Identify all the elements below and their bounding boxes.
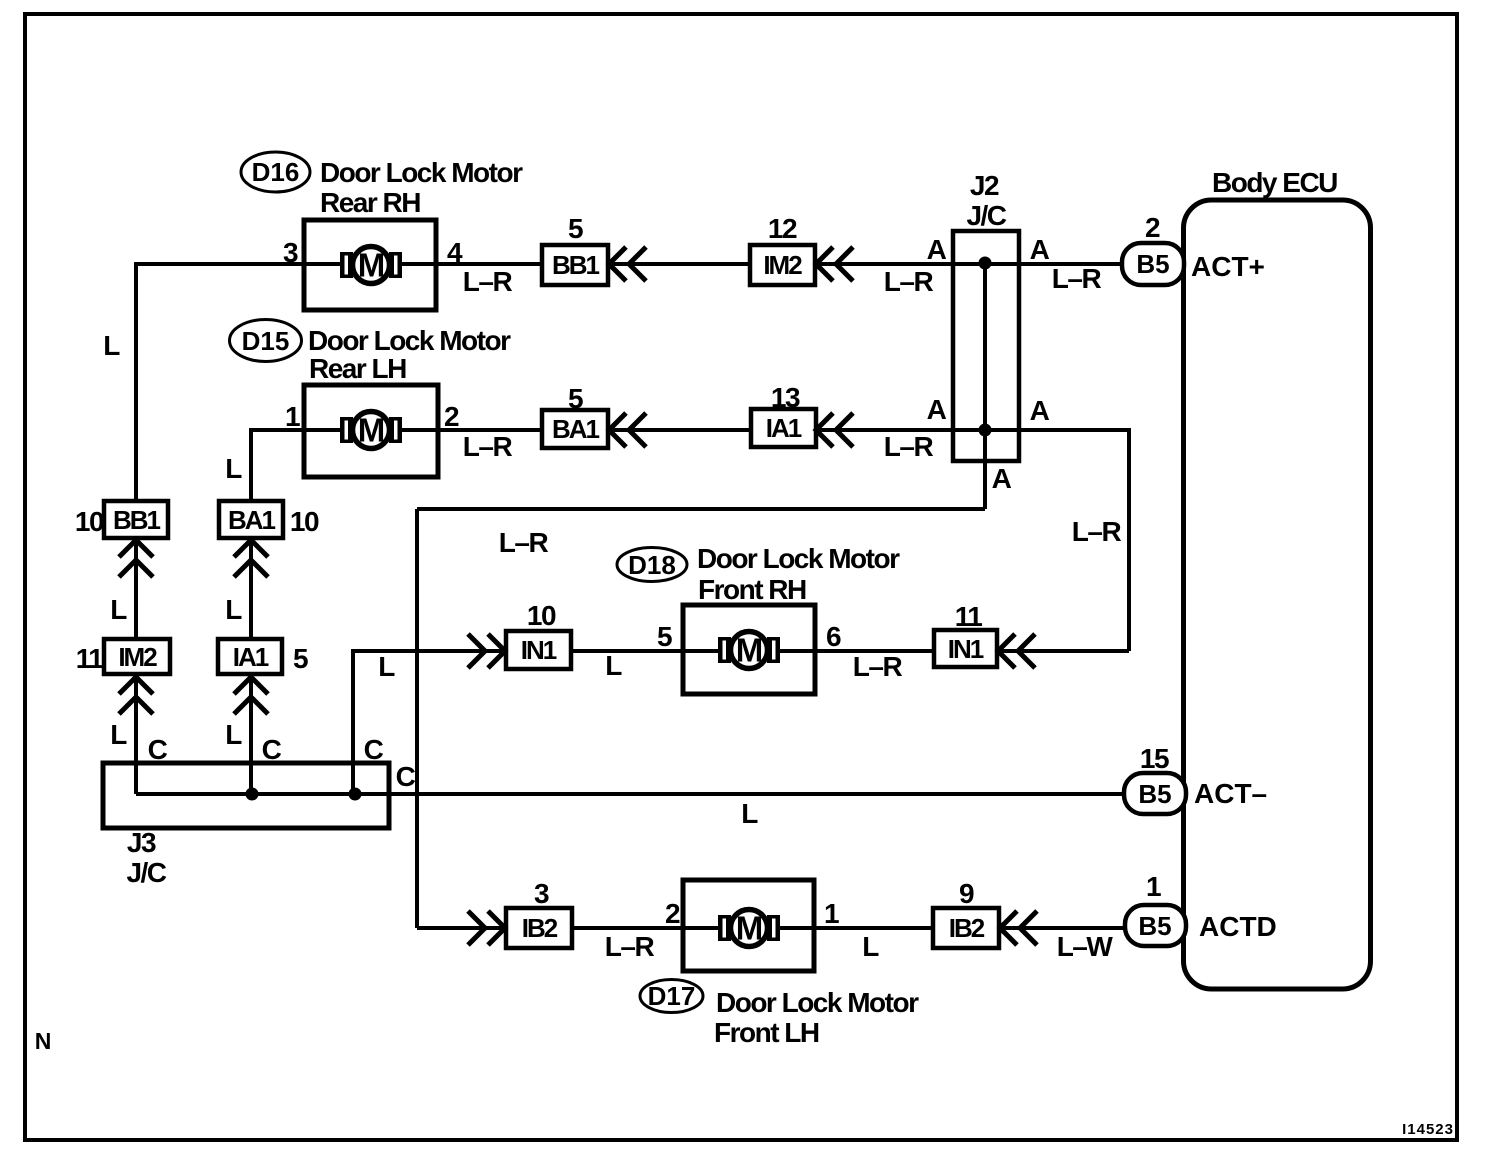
svg-text:IN1: IN1 (948, 634, 984, 664)
svg-text:M: M (358, 412, 385, 449)
svg-text:2: 2 (665, 898, 680, 929)
svg-text:10: 10 (527, 600, 556, 631)
svg-text:5: 5 (657, 621, 672, 652)
svg-text:D18: D18 (628, 550, 676, 580)
svg-text:M: M (736, 632, 763, 669)
svg-text:5: 5 (293, 643, 308, 674)
svg-text:L–R: L–R (884, 431, 934, 462)
svg-text:15: 15 (1140, 743, 1169, 774)
svg-text:J2: J2 (970, 170, 999, 201)
svg-text:L: L (741, 798, 758, 829)
svg-text:BB1: BB1 (113, 505, 161, 535)
svg-text:ACTD: ACTD (1199, 911, 1277, 942)
svg-text:C: C (262, 734, 282, 765)
svg-text:A: A (992, 463, 1012, 494)
svg-text:IA1: IA1 (766, 413, 802, 443)
svg-text:L–R: L–R (605, 931, 655, 962)
svg-text:IA1: IA1 (233, 642, 269, 672)
svg-text:3: 3 (283, 237, 298, 268)
svg-text:9: 9 (959, 878, 974, 909)
svg-text:L–W: L–W (1057, 931, 1114, 962)
svg-text:B5: B5 (1138, 911, 1171, 941)
svg-text:B5: B5 (1138, 779, 1171, 809)
svg-text:A: A (1030, 395, 1050, 426)
svg-text:11: 11 (76, 643, 104, 674)
svg-text:ACT+: ACT+ (1191, 251, 1265, 282)
svg-text:Door Lock Motor: Door Lock Motor (697, 543, 900, 574)
svg-text:Rear LH: Rear LH (309, 353, 406, 384)
svg-text:Rear RH: Rear RH (320, 187, 420, 218)
svg-text:L–R: L–R (463, 266, 513, 297)
svg-text:BB1: BB1 (552, 250, 600, 280)
svg-text:6: 6 (826, 621, 841, 652)
svg-text:J/C: J/C (126, 857, 166, 888)
svg-text:C: C (148, 734, 168, 765)
svg-text:I14523: I14523 (1402, 1121, 1454, 1138)
svg-text:M: M (358, 247, 385, 284)
svg-text:13: 13 (771, 382, 800, 413)
svg-text:L: L (605, 650, 622, 681)
svg-text:2: 2 (444, 401, 459, 432)
svg-text:IB2: IB2 (949, 913, 985, 943)
svg-text:Body ECU: Body ECU (1212, 167, 1337, 198)
svg-text:A: A (1030, 234, 1050, 265)
svg-text:D16: D16 (252, 157, 300, 187)
svg-text:1: 1 (824, 898, 839, 929)
svg-text:IM2: IM2 (118, 642, 157, 672)
svg-text:C: C (364, 734, 384, 765)
svg-text:L–R: L–R (884, 266, 934, 297)
svg-text:L: L (110, 719, 127, 750)
svg-text:IN1: IN1 (521, 635, 557, 665)
svg-text:1: 1 (285, 401, 300, 432)
svg-text:Door Lock Motor: Door Lock Motor (716, 987, 919, 1018)
svg-text:L–R: L–R (1072, 516, 1122, 547)
svg-text:J3: J3 (127, 827, 156, 858)
svg-text:IB2: IB2 (522, 913, 558, 943)
svg-text:BA1: BA1 (552, 414, 600, 444)
svg-text:L: L (225, 453, 242, 484)
svg-text:4: 4 (447, 237, 463, 268)
svg-text:L: L (862, 931, 879, 962)
svg-text:Front RH: Front RH (698, 574, 806, 605)
svg-text:L–R: L–R (463, 431, 513, 462)
svg-text:BA1: BA1 (228, 505, 276, 535)
svg-text:Door Lock Motor: Door Lock Motor (308, 325, 511, 356)
svg-text:2: 2 (1145, 212, 1160, 243)
svg-text:ACT–: ACT– (1194, 778, 1267, 809)
svg-text:12: 12 (768, 213, 797, 244)
svg-text:Front LH: Front LH (714, 1017, 819, 1048)
svg-text:L: L (103, 330, 120, 361)
svg-text:C: C (396, 761, 416, 792)
svg-text:10: 10 (75, 506, 104, 537)
svg-text:A: A (927, 234, 947, 265)
svg-text:11: 11 (955, 601, 983, 632)
svg-text:10: 10 (290, 506, 319, 537)
svg-text:L–R: L–R (1052, 263, 1102, 294)
svg-text:L: L (378, 651, 395, 682)
svg-text:L–R: L–R (499, 527, 549, 558)
svg-text:L: L (110, 594, 127, 625)
svg-text:1: 1 (1146, 871, 1161, 902)
svg-text:L–R: L–R (853, 651, 903, 682)
svg-text:L: L (225, 594, 242, 625)
svg-text:Door Lock Motor: Door Lock Motor (320, 157, 523, 188)
svg-text:N: N (35, 1028, 52, 1054)
svg-text:D15: D15 (242, 326, 290, 356)
svg-text:M: M (736, 910, 763, 947)
svg-text:5: 5 (568, 213, 583, 244)
svg-text:3: 3 (534, 878, 549, 909)
svg-text:B5: B5 (1136, 249, 1169, 279)
svg-text:D17: D17 (648, 981, 696, 1011)
svg-text:J/C: J/C (966, 200, 1006, 231)
svg-text:IM2: IM2 (763, 250, 802, 280)
svg-text:A: A (927, 394, 947, 425)
svg-text:5: 5 (568, 383, 583, 414)
svg-text:L: L (225, 719, 242, 750)
